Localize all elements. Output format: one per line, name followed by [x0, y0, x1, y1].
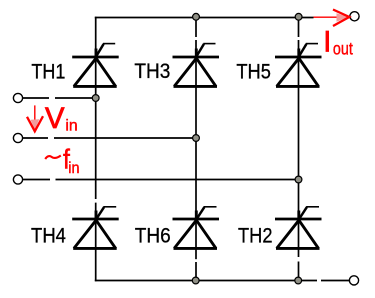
junction node phase C / column 3 [295, 176, 302, 183]
label fin [45, 144, 79, 177]
svg-text:TH3: TH3 [134, 60, 170, 83]
label Vin [45, 102, 78, 135]
junction node phase B / column 2 [193, 135, 200, 142]
wire top bus [95, 17, 314, 19]
arrow Iout (red, pointing right) [314, 10, 350, 27]
junction node bottom bus / column 2 [192, 277, 199, 284]
thyristor TH3 [173, 44, 220, 87]
wire phase B input segment a [23, 137, 48, 139]
thyristor TH2 [275, 207, 322, 249]
svg-text:I: I [323, 26, 331, 58]
wire column 3 upper segment b [298, 40, 300, 180]
thyristor TH6 [173, 207, 220, 249]
wire bottom bus right part [321, 280, 350, 282]
wire column 1 lower segment a [95, 98, 97, 199]
terminal phase B input [13, 133, 22, 142]
terminal phase A input [13, 93, 22, 102]
wire column 2 upper segment b [195, 40, 197, 138]
junction node top bus / column 2 [193, 13, 200, 20]
terminal output negative [349, 276, 358, 285]
svg-text:in: in [65, 118, 77, 135]
wire phase B input segment b [54, 137, 196, 139]
junction node bottom bus / column 3 [295, 277, 302, 284]
svg-text:in: in [68, 160, 79, 177]
svg-text:TH1: TH1 [31, 61, 65, 84]
wire phase A input segment b [55, 97, 96, 99]
thyristor TH1 [72, 44, 119, 87]
terminal phase C input [13, 175, 22, 184]
svg-text:TH6: TH6 [135, 225, 171, 248]
thyristor TH4 [72, 207, 119, 249]
wire column 1 lower segment b [95, 203, 97, 282]
wire column 3 lower segment b [298, 262, 300, 281]
svg-text:TH5: TH5 [236, 61, 271, 84]
svg-text:out: out [333, 39, 353, 59]
wire phase C input segment b [56, 179, 299, 181]
wire phase C input segment a [23, 179, 50, 181]
arrow Vin (red, pointing down) [27, 105, 43, 131]
junction node phase A / column 1 [92, 95, 99, 102]
wire column 3 upper segment a [298, 18, 300, 38]
wire column 2 lower segment a [195, 138, 197, 259]
svg-text:TH2: TH2 [238, 225, 273, 248]
svg-text:V: V [45, 102, 65, 135]
terminal output positive [350, 12, 359, 21]
wire phase A input segment a [23, 97, 49, 99]
wire column 2 upper segment a [195, 18, 197, 38]
wire bottom bus left part [95, 280, 317, 282]
label Iout [323, 26, 353, 58]
thyristor TH5 [275, 44, 322, 87]
wire column 2 lower segment b [195, 262, 197, 281]
junction node top bus / column 3 [295, 13, 302, 20]
wire column 1 upper (top bus to phase A node) [95, 17, 97, 98]
svg-text:TH4: TH4 [31, 225, 66, 248]
wire column 3 lower segment a [298, 180, 300, 258]
